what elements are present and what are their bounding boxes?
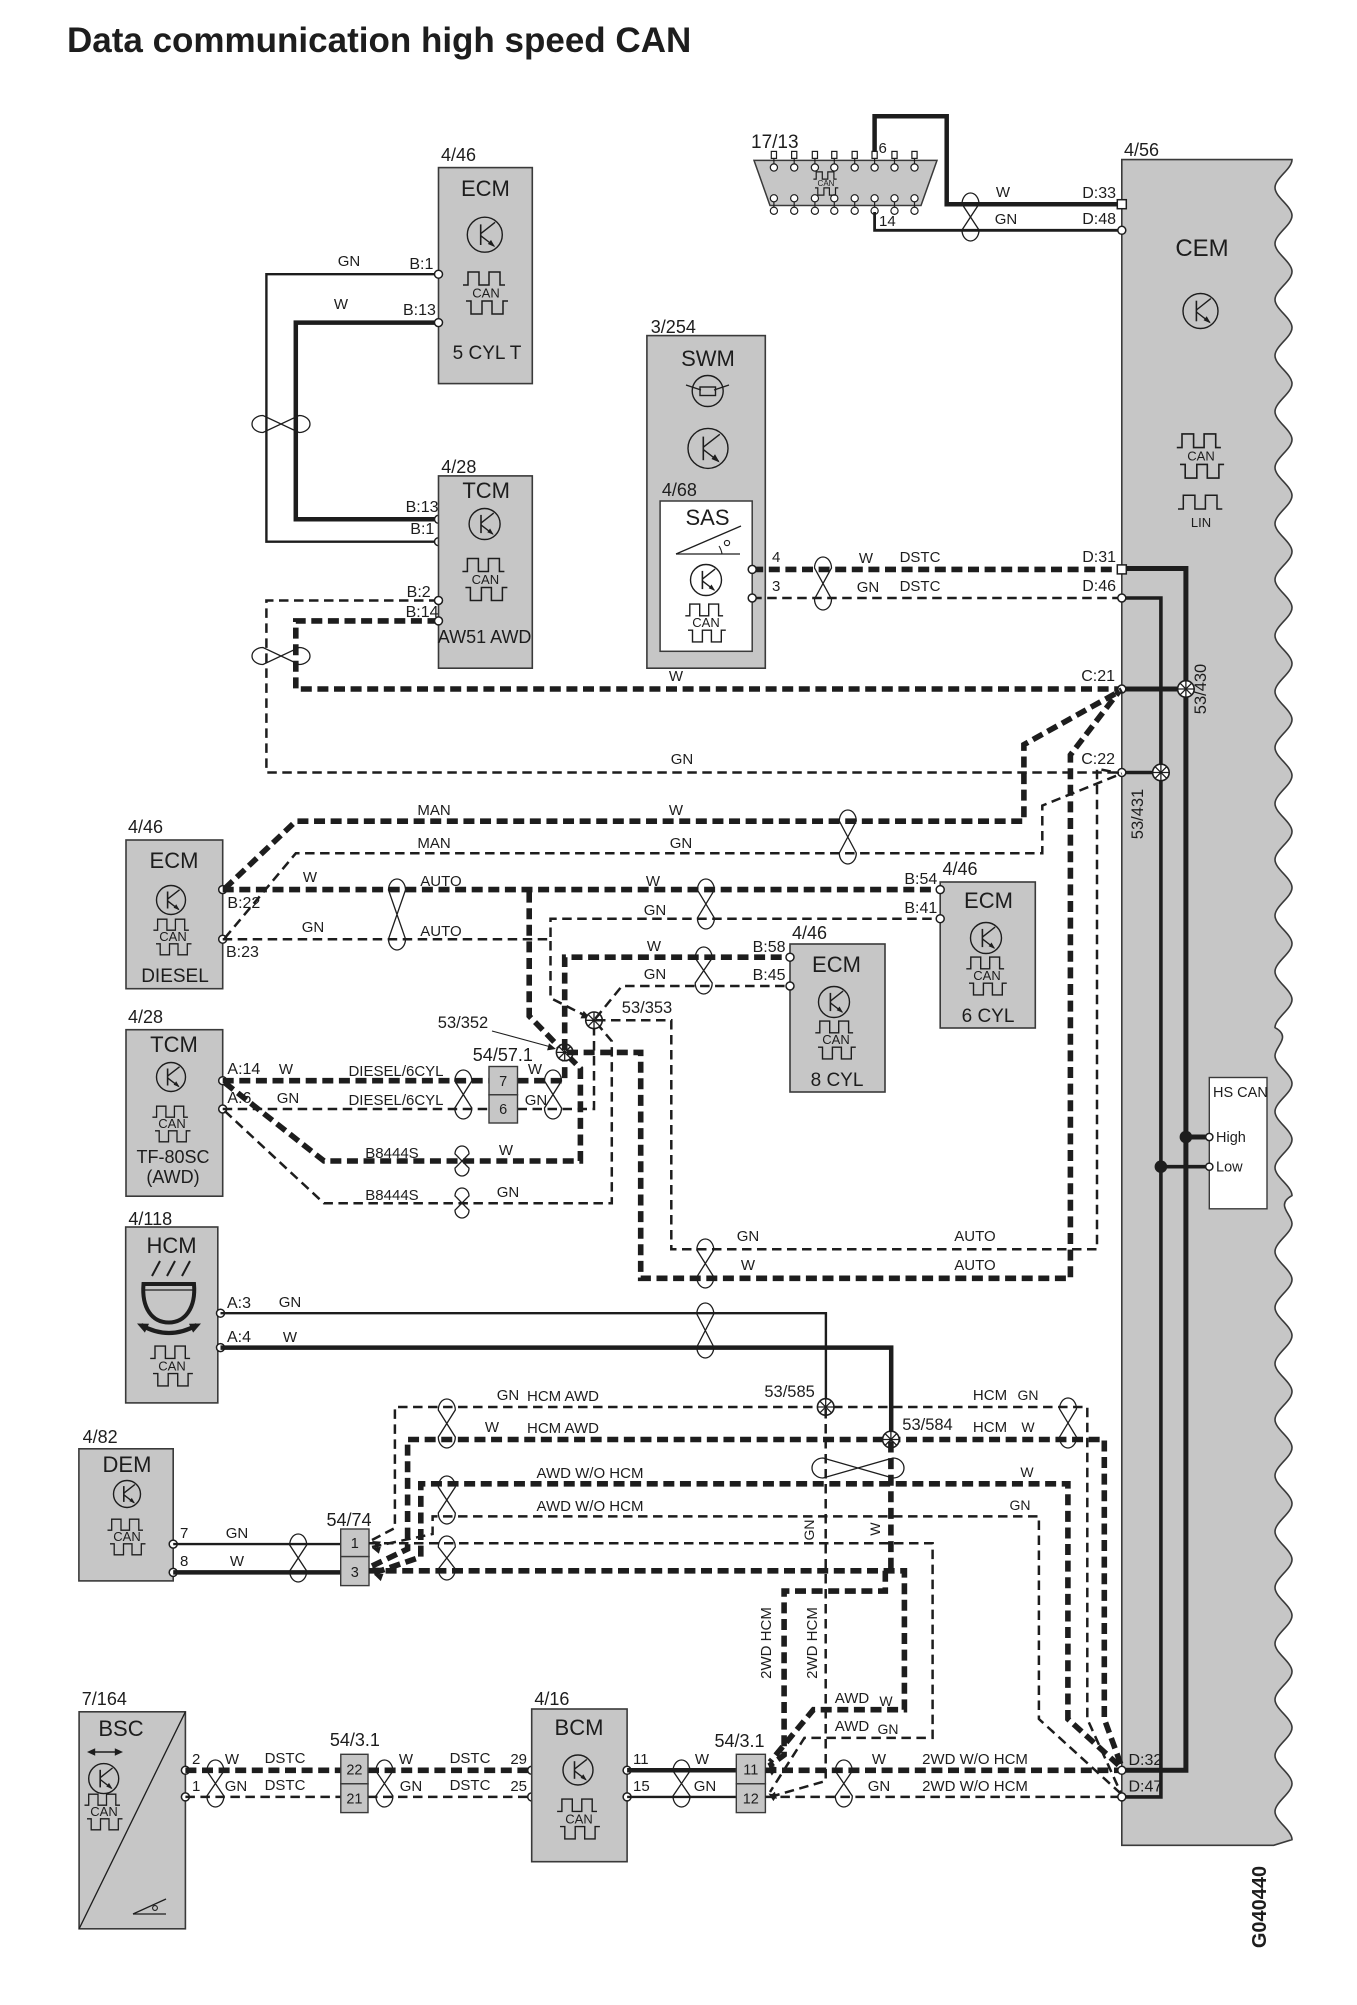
text TCM (AW51) xyxy=(462,478,510,503)
CAN symbol inside CEM xyxy=(1177,434,1224,478)
title xyxy=(67,21,691,60)
wire SAS pin4 to CEM D:31 (W DSTC) xyxy=(752,567,1122,573)
transistor symbol TCM AW51 xyxy=(469,509,500,540)
pin High xyxy=(1206,1130,1246,1146)
svg-text:2WD W/O HCM: 2WD W/O HCM xyxy=(922,1751,1028,1768)
wire TCM B:14 to CEM C:21 (W dashed) xyxy=(296,621,1122,689)
CAN symbol BSC xyxy=(85,1794,123,1830)
label AUTO (W bottom) xyxy=(954,1257,995,1274)
CAN symbol ECM DIESEL xyxy=(153,919,191,955)
wire CEM D:46 to splice 53/431 to HS-CAN Low to D:47 (thin) xyxy=(1122,598,1161,1797)
wire BSC 2 DSTC W to BCM 29 (thick dashed) xyxy=(185,1768,531,1774)
text DEM xyxy=(103,1452,152,1477)
junction dot High xyxy=(1180,1131,1193,1144)
svg-text:W: W xyxy=(741,1257,756,1274)
label W (DIESEL/6CYL) xyxy=(279,1061,294,1078)
svg-text:CAN: CAN xyxy=(822,1032,849,1047)
connector 54/74 label xyxy=(327,1510,372,1530)
module TCM 4/28 AW51 (body) xyxy=(439,476,533,668)
svg-text:B:14: B:14 xyxy=(406,604,439,621)
wire splice 53/353 to AUTO GN line (thin dashed) xyxy=(596,769,1119,1250)
twisted pair AUTO left xyxy=(389,879,406,950)
svg-text:A:3: A:3 xyxy=(227,1295,251,1312)
svg-text:1: 1 xyxy=(192,1778,200,1795)
label GN DSTC xyxy=(857,578,941,596)
svg-text:ECM: ECM xyxy=(150,848,199,873)
svg-text:53/353: 53/353 xyxy=(622,999,672,1017)
svg-text:54/57.1: 54/57.1 xyxy=(473,1045,533,1065)
junction dot Low xyxy=(1155,1160,1168,1173)
label HCM AWD (W) xyxy=(527,1420,599,1437)
label 4/46 (5CYLT) xyxy=(441,145,476,165)
label W (2WD) xyxy=(872,1751,887,1768)
svg-text:12: 12 xyxy=(743,1792,759,1808)
svg-text:CAN: CAN xyxy=(818,179,835,188)
svg-text:W: W xyxy=(283,1329,298,1346)
svg-text:4/28: 4/28 xyxy=(441,457,476,477)
twisted pair DIESEL/6CYL right xyxy=(545,1070,562,1119)
label GN (AWD) xyxy=(878,1721,899,1737)
svg-text:TF-80SC: TF-80SC xyxy=(136,1147,209,1167)
connector 54/74 box3 xyxy=(341,1557,369,1586)
svg-text:2WD HCM: 2WD HCM xyxy=(804,1607,821,1679)
label GN (HCM AWD) xyxy=(497,1387,520,1404)
module HCM 4/118 (body) xyxy=(126,1227,218,1403)
svg-text:W: W xyxy=(225,1751,240,1768)
svg-text:53/584: 53/584 xyxy=(902,1416,952,1434)
svg-text:7/164: 7/164 xyxy=(82,1689,127,1709)
wire BCM 11 to 54/3.1 box11 (W) xyxy=(627,1768,736,1773)
label GN (BCM right) xyxy=(694,1778,717,1795)
label 3/254 xyxy=(651,317,696,337)
label GN (B8444S) xyxy=(497,1184,520,1201)
label 4/28 (AW51) xyxy=(441,457,476,477)
twisted pair BSC-BCM xyxy=(376,1760,393,1807)
pin A:6 xyxy=(219,1090,252,1113)
svg-text:C:21: C:21 xyxy=(1081,668,1115,685)
wire DEM 8 to 54/74 box3 (W) xyxy=(173,1570,341,1575)
pedal symbol BSC xyxy=(133,1899,166,1914)
label GN (HCM right) xyxy=(1018,1387,1039,1403)
label AWD (GN) xyxy=(835,1718,870,1735)
svg-text:53/431: 53/431 xyxy=(1129,789,1147,839)
svg-text:11: 11 xyxy=(743,1763,758,1779)
svg-text:53/585: 53/585 xyxy=(764,1383,814,1401)
label W (B:13) xyxy=(334,296,349,313)
svg-text:DSTC: DSTC xyxy=(900,549,941,566)
svg-text:3/254: 3/254 xyxy=(651,317,696,337)
svg-text:GN: GN xyxy=(338,253,361,270)
wire AWD-W/O-HCM GN (thin dashed) xyxy=(372,1516,1122,1794)
twisted pair AUTO right xyxy=(697,879,714,929)
pin 8 (DEM) xyxy=(169,1553,188,1576)
svg-text:54/74: 54/74 xyxy=(327,1510,372,1530)
text ECM (8CYL) xyxy=(812,952,861,977)
label DIESEL/6CYL (W) xyxy=(348,1063,443,1080)
svg-text:B:13: B:13 xyxy=(403,302,436,319)
svg-text:4/46: 4/46 xyxy=(943,859,978,879)
label W (AUTO bottom) xyxy=(741,1257,756,1274)
CAN symbol TCM AW51 xyxy=(462,559,507,601)
wire 2WD-W/O-HCM W 54/3.1 to CEM D:32 (thick dashed) xyxy=(765,1768,1121,1774)
svg-text:W: W xyxy=(528,1061,543,1078)
pin B:1 (ECM) xyxy=(409,256,442,278)
connector 17/13 pins xyxy=(770,151,918,214)
label AUTO (GN bottom) xyxy=(954,1228,995,1245)
text CEM xyxy=(1175,235,1228,262)
svg-text:W: W xyxy=(879,1693,893,1709)
svg-text:HS CAN: HS CAN xyxy=(1213,1085,1268,1101)
twisted pair HCM xyxy=(697,1303,714,1358)
label 4/46 (8CYL) xyxy=(792,923,827,943)
module DEM 4/82 (body) xyxy=(79,1449,173,1581)
svg-text:CAN: CAN xyxy=(1187,449,1214,464)
label DIESEL/6CYL (GN) xyxy=(348,1092,443,1109)
svg-text:SAS: SAS xyxy=(685,505,729,530)
connector 54/3.1 box11 xyxy=(736,1754,765,1784)
svg-text:DIESEL: DIESEL xyxy=(141,966,209,987)
pin B:45 xyxy=(753,967,794,990)
pin D:33 xyxy=(1082,185,1126,209)
twisted pair GN/W verticals (wide X) xyxy=(812,1458,904,1478)
CAN symbol SAS xyxy=(685,604,726,642)
svg-text:GN: GN xyxy=(644,902,667,919)
label W (C:21 line) xyxy=(669,668,684,685)
svg-text:C:22: C:22 xyxy=(1081,751,1115,768)
label 53/585 xyxy=(764,1383,814,1401)
pin 15 (BCM) xyxy=(623,1778,650,1801)
wire ECM B:13 to TCM B:13 (W) xyxy=(296,323,439,520)
pin B:14 (TCM) xyxy=(406,604,443,625)
svg-text:B:22: B:22 xyxy=(227,895,260,912)
svg-text:D:31: D:31 xyxy=(1082,549,1116,566)
svg-text:17/13: 17/13 xyxy=(751,132,799,153)
wire to HS CAN Low pin xyxy=(1161,1165,1207,1169)
splice 53/584 xyxy=(883,1431,900,1448)
svg-text:Low: Low xyxy=(1216,1160,1243,1176)
label 4/16 xyxy=(534,1689,569,1709)
svg-text:DSTC: DSTC xyxy=(900,578,941,595)
splice 53/585 xyxy=(817,1399,834,1416)
pin B:41 xyxy=(904,900,944,923)
transistor symbol ECM 8CYL xyxy=(819,987,850,1018)
label B8444S (GN) xyxy=(365,1187,418,1204)
svg-text:W: W xyxy=(1021,1419,1035,1435)
connector 54/3.1 box22 xyxy=(341,1754,368,1784)
connector 54/3.1 box21 xyxy=(341,1784,368,1813)
svg-text:B:58: B:58 xyxy=(753,939,786,956)
label GN (A:3) xyxy=(279,1294,302,1311)
wire 2WD-HCM branch (thick dashed) xyxy=(767,1571,885,1776)
pin 4 (SAS) xyxy=(748,549,780,573)
CAN symbol HCM xyxy=(150,1346,193,1386)
label 4/46 (DIESEL) xyxy=(128,817,163,837)
label W (HCM AWD) xyxy=(485,1419,500,1436)
svg-text:GN: GN xyxy=(878,1721,899,1737)
svg-text:GN: GN xyxy=(400,1778,423,1795)
svg-text:53/352: 53/352 xyxy=(438,1014,488,1032)
transistor symbol BSC xyxy=(89,1764,119,1794)
svg-text:1: 1 xyxy=(351,1536,359,1552)
wire BCM 15 to 54/3.1 box12 (GN) xyxy=(627,1796,736,1798)
wire AWD-W/O-HCM W (thick dashed) xyxy=(374,1484,1122,1768)
svg-text:CAN: CAN xyxy=(90,1804,117,1819)
svg-text:3: 3 xyxy=(772,578,780,595)
svg-text:GN: GN xyxy=(1018,1387,1039,1403)
svg-text:2: 2 xyxy=(192,1751,200,1768)
svg-text:4/16: 4/16 xyxy=(534,1689,569,1709)
splice 53/431 xyxy=(1153,764,1170,781)
label 2WD W/O HCM (GN) xyxy=(922,1778,1028,1795)
label AUTO (W) xyxy=(420,873,461,890)
svg-text:TCM: TCM xyxy=(462,478,510,503)
label GN (B:1) xyxy=(338,253,361,270)
svg-text:7: 7 xyxy=(499,1074,507,1090)
module BSC 7/164 (body) xyxy=(79,1712,185,1929)
twisted pair BSC xyxy=(207,1760,224,1807)
svg-text:High: High xyxy=(1216,1130,1246,1146)
pin A:4 xyxy=(217,1329,252,1352)
svg-text:54/3.1: 54/3.1 xyxy=(330,1730,380,1750)
text HS CAN xyxy=(1213,1085,1268,1101)
twisted pair ECM-TCM xyxy=(252,416,310,433)
pin 7 (DEM) xyxy=(169,1525,188,1548)
svg-text:B8444S: B8444S xyxy=(365,1145,418,1162)
svg-text:GN: GN xyxy=(644,966,667,983)
svg-text:ECM: ECM xyxy=(812,952,861,977)
label 2WD W/O HCM (W) xyxy=(922,1751,1028,1768)
svg-text:3: 3 xyxy=(351,1565,359,1581)
label W (AUTO) xyxy=(303,869,318,886)
svg-text:CAN: CAN xyxy=(973,968,1000,983)
svg-text:D:46: D:46 xyxy=(1082,578,1116,595)
svg-text:W: W xyxy=(695,1751,710,1768)
svg-text:BSC: BSC xyxy=(98,1716,143,1741)
svg-text:D:33: D:33 xyxy=(1082,185,1116,202)
transistor symbol ECM DIESEL xyxy=(157,886,186,915)
label 53/430 xyxy=(1192,664,1210,714)
label MAN (W) xyxy=(417,802,450,819)
svg-text:B:1: B:1 xyxy=(409,256,433,273)
svg-text:TCM: TCM xyxy=(150,1032,198,1057)
wire HCM A:3 to splice 53/585 (GN) xyxy=(221,1313,826,1405)
svg-text:A:4: A:4 xyxy=(227,1329,251,1346)
label AWD (W) xyxy=(835,1690,870,1707)
heat waves symbol HCM xyxy=(152,1261,190,1276)
svg-text:B:45: B:45 xyxy=(753,967,786,984)
svg-text:ECM: ECM xyxy=(461,176,510,201)
wire CEM C:21 to splice 53/430 xyxy=(1122,687,1186,692)
splice 53/353 xyxy=(586,1012,603,1029)
transistor symbol SAS xyxy=(691,565,722,596)
text TCM (TF80) xyxy=(150,1032,198,1057)
svg-text:DSTC: DSTC xyxy=(265,1777,306,1794)
svg-text:DEM: DEM xyxy=(103,1452,152,1477)
svg-text:4/68: 4/68 xyxy=(662,480,697,500)
label GN (AUTO bottom) xyxy=(737,1228,760,1245)
svg-text:DSTC: DSTC xyxy=(450,1750,491,1767)
svg-text:B:1: B:1 xyxy=(410,521,434,538)
svg-text:W: W xyxy=(399,1751,414,1768)
transistor symbol TCM TF80 xyxy=(157,1063,186,1092)
twisted pair 17/13 xyxy=(962,193,979,241)
svg-text:53/430: 53/430 xyxy=(1192,664,1210,714)
svg-text:2WD HCM: 2WD HCM xyxy=(758,1607,775,1679)
CAN symbol ECM 6CYL xyxy=(966,957,1007,995)
pin B:2 (TCM) xyxy=(407,584,443,605)
svg-text:GN: GN xyxy=(670,835,693,852)
transistor symbol inside CEM xyxy=(1183,294,1218,329)
twisted pair BCM right xyxy=(673,1760,690,1807)
label GN (DIESEL/6CYL) xyxy=(277,1090,300,1107)
svg-text:15: 15 xyxy=(633,1778,650,1795)
label 4/118 xyxy=(128,1209,172,1229)
svg-text:DIESEL/6CYL: DIESEL/6CYL xyxy=(348,1092,443,1109)
svg-text:GN: GN xyxy=(694,1778,717,1795)
svg-text:ECM: ECM xyxy=(964,888,1013,913)
connector 54/3.1 box12 xyxy=(736,1784,765,1813)
svg-text:W: W xyxy=(230,1553,245,1570)
svg-text:W: W xyxy=(669,802,684,819)
twisted pair MAN xyxy=(839,810,856,864)
module ECM 4/46 8CYL (body) xyxy=(790,944,885,1092)
label 2WD HCM (left) xyxy=(758,1607,775,1679)
label AWD W/O HCM (GN) xyxy=(537,1498,644,1515)
wire CEM D:31 to splice 53/430 to HS-CAN High to D:32 (thick) xyxy=(1122,569,1186,1771)
pin A:14 xyxy=(219,1061,261,1085)
pin D:32 xyxy=(1118,1752,1163,1774)
svg-text:B:23: B:23 xyxy=(226,944,259,961)
svg-text:6: 6 xyxy=(879,140,887,157)
svg-text:8 CYL: 8 CYL xyxy=(811,1070,864,1091)
label W (B:54) xyxy=(646,873,661,890)
svg-text:54/3.1: 54/3.1 xyxy=(715,1731,765,1751)
connector 54/57.1 box6 xyxy=(489,1095,518,1123)
svg-text:11: 11 xyxy=(633,1751,649,1768)
wire branch AUTO W down to splice 53/352 xyxy=(529,892,562,1050)
label GN DSTC (BCM side) xyxy=(400,1777,491,1795)
lamp symbol SWM xyxy=(686,376,729,407)
twisted pair HCM lines right xyxy=(1060,1398,1077,1448)
label GN (AUTO) xyxy=(302,919,325,936)
splice 53/430 xyxy=(1178,681,1195,698)
pin 25 (BCM) xyxy=(510,1778,535,1801)
svg-text:CAN: CAN xyxy=(159,929,186,944)
label GN (B:41) xyxy=(644,902,667,919)
wire 17/13 pin6 to CEM D:33 (W) xyxy=(875,116,1122,204)
diagonal inside BSC xyxy=(79,1712,185,1929)
svg-text:AUTO: AUTO xyxy=(420,873,461,890)
wire AUTO W ECM B:22 to ECM-6CYL B:54 (thick dashed) xyxy=(223,887,936,893)
CAN symbol BCM xyxy=(557,1799,600,1839)
pin B:1 (TCM) xyxy=(410,521,442,546)
pin C:21 xyxy=(1081,668,1126,693)
wire DIESEL/6CYL W TCM A:14 to splice 53/352 (thick dashed) xyxy=(223,1054,565,1081)
label 17/13 xyxy=(751,132,799,153)
text 5 CYL T xyxy=(453,343,522,364)
svg-text:8: 8 xyxy=(180,1553,188,1570)
connector 17/13 (body) xyxy=(754,160,937,205)
module ECM 4/46 6CYL (body) xyxy=(940,882,1035,1028)
label HCM (GN right) xyxy=(973,1387,1007,1404)
label GN (2WD) xyxy=(868,1778,891,1795)
svg-text:14: 14 xyxy=(879,213,896,230)
transistor symbol BCM xyxy=(563,1755,593,1785)
connector 54/3.1 right label xyxy=(715,1731,765,1751)
CAN symbol inside 17/13 xyxy=(813,172,838,195)
svg-text:22: 22 xyxy=(346,1763,362,1779)
svg-text:W: W xyxy=(996,184,1011,201)
label W (A:4) xyxy=(283,1329,298,1346)
svg-text:4/46: 4/46 xyxy=(128,817,163,837)
svg-text:GN: GN xyxy=(497,1387,520,1404)
svg-text:LIN: LIN xyxy=(1191,515,1211,530)
svg-text:W: W xyxy=(867,1522,883,1536)
wire HCM-AWD GN from 54/74 box1 (thin dashed) xyxy=(372,1407,1122,1795)
wire ECM B:1 to TCM B:1 (GN) xyxy=(266,274,438,542)
svg-text:GN: GN xyxy=(857,579,880,596)
text HCM xyxy=(146,1233,196,1258)
LIN symbol inside CEM xyxy=(1178,495,1222,530)
label W (B:58) xyxy=(647,938,662,955)
module ECM 4/46 DIESEL (body) xyxy=(126,840,223,989)
svg-text:GN: GN xyxy=(225,1778,248,1795)
CAN symbol ECM 5CYLT xyxy=(463,272,508,314)
label B8444S (W) xyxy=(365,1145,418,1162)
label 53/584 xyxy=(902,1416,952,1434)
svg-text:B:41: B:41 xyxy=(904,900,937,917)
wire B8444S W TCM A:14 to splice 53/352 (thick dashed) xyxy=(225,1055,581,1162)
svg-text:2WD W/O HCM: 2WD W/O HCM xyxy=(922,1778,1028,1795)
pin B:22 xyxy=(219,886,261,912)
twisted pair 8CYL xyxy=(695,947,712,994)
svg-text:CAN: CAN xyxy=(158,1116,185,1131)
label 4/68 xyxy=(662,480,697,500)
text (AWD) xyxy=(146,1167,199,1187)
pin B:13 (TCM) xyxy=(406,499,443,523)
svg-text:GN: GN xyxy=(497,1184,520,1201)
svg-text:B8444S: B8444S xyxy=(365,1187,418,1204)
pin B:23 xyxy=(219,935,259,961)
svg-text:DSTC: DSTC xyxy=(265,1750,306,1767)
wire splice 53/584 down to W nexus (thick dashed) xyxy=(888,1442,894,1571)
connector 54/57.1 label xyxy=(473,1045,533,1065)
svg-text:(AWD): (AWD) xyxy=(146,1167,199,1187)
svg-text:DIESEL/6CYL: DIESEL/6CYL xyxy=(348,1063,443,1080)
svg-text:D:48: D:48 xyxy=(1082,211,1116,228)
svg-text:AWD W/O HCM: AWD W/O HCM xyxy=(537,1498,644,1515)
wire DIESEL/6CYL GN TCM A:6 to splice 53/353 (thin dashed) xyxy=(223,1022,594,1109)
wire 17/13 pin14 to CEM D:48 (GN) xyxy=(875,212,1122,230)
svg-text:HCM: HCM xyxy=(973,1387,1007,1404)
svg-text:5 CYL T: 5 CYL T xyxy=(453,343,522,364)
wire to HS CAN High pin xyxy=(1186,1135,1207,1140)
wire splice 53/352 to AUTO W line (thick dashed) xyxy=(567,692,1119,1279)
svg-text:GN: GN xyxy=(525,1092,548,1109)
svg-text:HCM AWD: HCM AWD xyxy=(527,1420,599,1437)
svg-text:W: W xyxy=(279,1061,294,1078)
svg-text:B:54: B:54 xyxy=(904,871,937,888)
svg-text:7: 7 xyxy=(180,1525,188,1542)
wire splice 53/353 to ECM-8CYL B:45 (thin dashed) xyxy=(596,986,786,1019)
svg-text:AWD: AWD xyxy=(835,1690,870,1707)
label AUTO (GN) xyxy=(420,923,461,940)
svg-text:AWD: AWD xyxy=(835,1718,870,1735)
twisted pair HCM-AWD left xyxy=(438,1399,455,1448)
label 53/353 xyxy=(622,999,672,1017)
pin D:47 xyxy=(1118,1779,1163,1801)
svg-text:CAN: CAN xyxy=(472,286,499,301)
